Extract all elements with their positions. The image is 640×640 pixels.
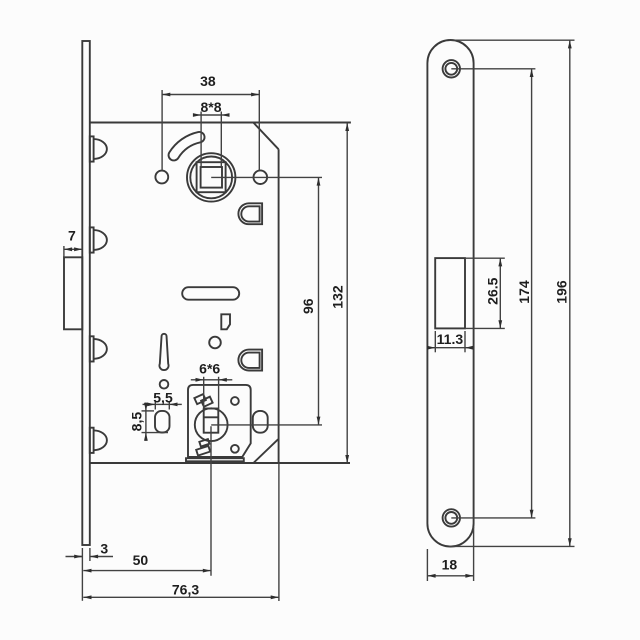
ext line 18 right (473, 527, 475, 581)
dim line 8x8 (201, 114, 221, 116)
tilted rect top A (194, 394, 205, 404)
lock body bottom edge (90, 462, 350, 464)
svg-text:38: 38 (200, 73, 216, 89)
follower rectangle (204, 409, 219, 433)
arrow 8.5 top (145, 403, 147, 411)
ext line 8.5 top (142, 410, 155, 412)
follower divider (204, 416, 219, 418)
arrow 11.3 left (427, 347, 435, 349)
dim line 5.5 (155, 403, 169, 405)
svg-text:196: 196 (554, 280, 570, 304)
handle screw hole right (253, 170, 267, 184)
arrow 8x8 right (221, 114, 229, 116)
dim line 76.3 (83, 596, 279, 598)
mounting tab 1 (90, 136, 107, 161)
latch housing outline (188, 385, 251, 457)
lock body chamfer top-right (253, 123, 278, 150)
svg-text:5,5: 5,5 (153, 389, 173, 405)
teardrop slot (159, 334, 168, 370)
dim line 7 (64, 248, 82, 250)
svg-text:8*8: 8*8 (200, 99, 221, 115)
front plate magnet cutout (435, 258, 465, 328)
small circle above lock (209, 337, 221, 349)
ext line 8x8 right (220, 112, 222, 168)
spindle rosette outer circle (187, 153, 235, 201)
latch cam vertical extension (210, 426, 212, 576)
dim line 38 (162, 94, 259, 96)
svg-text:96: 96 (300, 298, 316, 314)
center oval slot (182, 287, 239, 300)
svg-text:50: 50 (133, 552, 149, 568)
dim line 11.3 (435, 347, 465, 349)
ext line 26.5 bottom (466, 327, 505, 329)
ext line dim38 right (258, 90, 260, 171)
D-slot upper inner (241, 206, 259, 221)
arrow 8x8 left (193, 114, 201, 116)
tilted rect bottom small (199, 439, 209, 447)
mounting tab 3 (90, 336, 107, 361)
ext line dim3 right (89, 548, 91, 561)
housing base plate (186, 458, 244, 461)
dim line 50 (83, 570, 211, 572)
front plate outline (427, 40, 473, 547)
body corner diagonal (253, 439, 278, 463)
housing screw hole upper (231, 397, 239, 405)
dim line 8.5 (145, 411, 147, 433)
ext line 76.3 right (278, 464, 280, 602)
ext line 5.5 right (168, 401, 170, 410)
svg-text:26.5: 26.5 (484, 277, 500, 304)
ext line 8.5 bottom (142, 432, 169, 434)
ext line dim7 (63, 246, 65, 257)
svg-text:7: 7 (68, 227, 76, 243)
mounting tab 4 (90, 428, 107, 453)
dim line 18 (427, 575, 473, 577)
dim line 3 left tail (66, 556, 83, 558)
svg-text:132: 132 (329, 285, 345, 309)
svg-text:18: 18 (442, 557, 458, 573)
dim line 132 (346, 123, 348, 463)
small capsule 5.5x8.5 (155, 411, 170, 433)
leader from latch cam center (211, 424, 322, 426)
svg-text:11.3: 11.3 (437, 331, 464, 347)
svg-text:8,5: 8,5 (128, 412, 144, 432)
arrow 3 right tail (90, 556, 113, 558)
ext line dim38 left (161, 90, 163, 171)
leader from spindle center (211, 176, 322, 178)
svg-text:76,3: 76,3 (172, 581, 199, 597)
spindle boss square (197, 162, 226, 192)
arrow 8.5 bottom (145, 433, 147, 441)
arrow 3 left (74, 556, 82, 558)
dim line 196 (569, 40, 571, 546)
D-slot lower outer (238, 350, 262, 371)
tilted rect bottom (196, 446, 210, 456)
dim line 96 (318, 177, 320, 424)
arrow 5.5 right (169, 403, 182, 405)
ext line 8x8 left (200, 112, 202, 168)
dim line 6x6 (204, 379, 219, 381)
ext line 6x6 right (218, 377, 220, 409)
dim line 174 (531, 69, 533, 518)
lock body top edge (90, 122, 351, 124)
svg-text:6*6: 6*6 (199, 360, 220, 376)
tilted rect top B (201, 397, 212, 407)
lock body right edge (278, 149, 280, 463)
leader 174 bottom (451, 517, 535, 519)
faceplate strip (side view) (82, 41, 90, 545)
small circle below teardrop (160, 380, 169, 389)
handle screw hole left (155, 171, 168, 184)
front plate screw hole bottom inner (445, 512, 457, 524)
magnet latch block (64, 257, 82, 329)
arrow 11.3 right (465, 347, 473, 349)
dim line 26.5 (499, 258, 501, 328)
latch cam circle (195, 408, 228, 441)
ext line 11.3 right (464, 331, 466, 352)
mounting tab 2 (90, 227, 107, 252)
D-slot upper outer (238, 203, 262, 224)
curved banana slot (174, 137, 200, 155)
ext line 6x6 left (203, 377, 205, 409)
svg-text:3: 3 (100, 541, 108, 557)
arrow 6x6 left (191, 379, 204, 381)
pentagon cutout (221, 314, 230, 329)
leader 196 top (449, 39, 575, 41)
leader 196 bottom (449, 545, 575, 547)
ext line 11.3 left (434, 331, 436, 352)
ext line dim3 left long (81, 548, 83, 601)
front plate screw hole bottom outer (443, 509, 460, 526)
ext line 5.5 left (154, 401, 156, 410)
spindle rosette inner circle (190, 157, 232, 199)
leader 174 top (451, 68, 535, 70)
svg-text:174: 174 (516, 280, 532, 304)
spindle hole 8x8 (201, 167, 222, 188)
D-slot lower inner (241, 353, 259, 368)
front plate screw hole top inner (445, 63, 457, 75)
ext line 26.5 top (466, 257, 505, 259)
arrow 5.5 left (143, 403, 156, 405)
front plate screw hole top outer (443, 60, 460, 77)
ext line 18 left (426, 549, 428, 581)
arrow 6x6 right (219, 379, 233, 381)
housing screw hole lower (231, 445, 239, 453)
right edge capsule (253, 411, 268, 433)
